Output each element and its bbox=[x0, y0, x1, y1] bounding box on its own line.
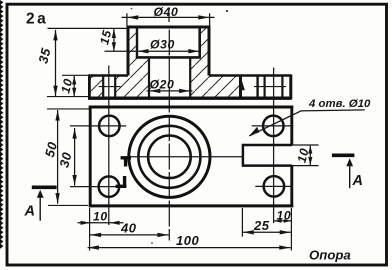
plan view outline top bbox=[89, 106, 293, 109]
speck dots (scan artifacts) bbox=[226, 10, 228, 12]
extension line base top to left bbox=[62, 74, 89, 76]
section arrow A left bar bbox=[32, 185, 57, 189]
extension line boss top to left bbox=[48, 27, 127, 29]
small hole left wall (section) bbox=[102, 76, 104, 98]
dimension 25 left arrowhead bbox=[243, 230, 254, 234]
centerline top-left hole horizontal bbox=[70, 125, 126, 127]
big circle Ø20 (plan) bbox=[148, 136, 191, 179]
centerline bottom-right hole horizontal bbox=[255, 185, 293, 187]
base bottom edge bbox=[88, 96, 292, 99]
plan view outline right upper bbox=[290, 106, 293, 145]
leader 4 holes line bbox=[249, 110, 365, 136]
dimension 30 top arrowhead bbox=[72, 128, 76, 139]
dimension Ø40 right arrowhead bbox=[198, 15, 209, 19]
dimension 50 line bbox=[57, 110, 59, 204]
svg-text:30: 30 bbox=[56, 150, 74, 169]
dimension 100 left arrowhead bbox=[88, 245, 99, 249]
dimension 10 thickness top arrowhead bbox=[72, 76, 76, 85]
odd upward arrow at notch wall bbox=[239, 81, 245, 91]
notch top edge bbox=[243, 144, 292, 147]
dimension 10 notch line bbox=[309, 146, 311, 165]
base left edge bbox=[88, 75, 91, 100]
section arrow A left arrow bbox=[39, 196, 41, 221]
dimension 30 line bbox=[74, 128, 76, 186]
svg-text:10: 10 bbox=[295, 147, 312, 165]
section arrow A right arrow bbox=[349, 164, 351, 188]
leader 4 holes arrowhead bbox=[249, 127, 259, 136]
svg-text:10: 10 bbox=[58, 77, 75, 95]
extension right edge down bbox=[290, 208, 292, 251]
notch bottom extension line bbox=[292, 165, 319, 167]
centerline right hole axis bbox=[273, 68, 275, 224]
section step mark upper vertical bbox=[124, 157, 127, 167]
centerline big circle horizontal bbox=[128, 156, 243, 158]
big circle Ø40 boss (plan) bbox=[129, 116, 210, 197]
dimension 10 bottom-right left arrowhead bbox=[274, 219, 281, 223]
hole top-left (plan) bbox=[99, 116, 120, 136]
centerline tick across right hole (section) bbox=[254, 86, 286, 88]
centerline left hole axis bbox=[108, 66, 110, 226]
big circle Ø30 (plan) bbox=[138, 126, 200, 188]
svg-text:A: A bbox=[352, 173, 363, 189]
hole bottom-right (plan) bbox=[264, 176, 285, 197]
notch top extension line bbox=[292, 144, 319, 146]
hatch area right boss band and base (section) bbox=[190, 27, 240, 97]
dimension Ø30 line bbox=[105, 50, 202, 52]
svg-text:10: 10 bbox=[93, 209, 108, 223]
dimension 50 bottom arrowhead bbox=[55, 193, 59, 204]
hole Ø20 left wall bbox=[148, 57, 150, 97]
extension line base bottom to left bbox=[47, 96, 89, 98]
plan view outline left bbox=[89, 106, 92, 208]
base top edge left segment bbox=[88, 74, 128, 77]
dimension 15 bottom arrowhead bbox=[112, 42, 116, 51]
dimension 40 right arrowhead bbox=[157, 233, 168, 237]
centerline top-right hole horizontal bbox=[252, 125, 294, 127]
svg-text:10: 10 bbox=[277, 208, 292, 222]
dimension Ø20 right arrowhead bbox=[179, 89, 190, 93]
dimension 30 bottom arrowhead bbox=[72, 175, 76, 186]
svg-text:2a: 2a bbox=[26, 11, 48, 28]
dimension 50 top arrowhead bbox=[55, 110, 59, 121]
dimension 35 top arrowhead bbox=[53, 30, 57, 41]
small hole right wall (section) bbox=[114, 76, 116, 98]
dimension 10 bottom-right right arrowhead bbox=[284, 219, 291, 223]
dimension 40 line bbox=[90, 234, 169, 236]
inner vertical line right portion bbox=[256, 76, 258, 98]
svg-text:100: 100 bbox=[176, 233, 199, 248]
section step mark lower horizontal bbox=[116, 185, 127, 188]
section arrow A right bar bbox=[332, 153, 355, 157]
dimension Ø30 left arrowhead bbox=[138, 49, 149, 53]
extension notch edge down bbox=[241, 208, 243, 237]
dimension 35 bottom arrowhead bbox=[53, 86, 57, 97]
section step mark lower vertical bbox=[123, 176, 126, 187]
notch left wall bbox=[242, 144, 245, 167]
hatch area left boss band and base (section) bbox=[115, 27, 149, 97]
right hole right wall (section) bbox=[281, 76, 283, 98]
notch bottom edge bbox=[243, 164, 292, 167]
svg-text:Ø30: Ø30 bbox=[150, 38, 175, 52]
dimension Ø20 left arrowhead bbox=[149, 89, 160, 93]
svg-text:4 отв. Ø10: 4 отв. Ø10 bbox=[308, 98, 371, 110]
dimension 10 bottom-left line with tails bbox=[78, 222, 124, 224]
boss top edge (section) bbox=[127, 26, 211, 29]
dimension 10 thickness line bbox=[73, 76, 75, 96]
dimension Ø40 left arrowhead bbox=[127, 15, 138, 19]
dimension 10 notch bottom arrowhead bbox=[308, 157, 312, 165]
svg-text:25: 25 bbox=[253, 218, 270, 233]
dimension 100 line bbox=[88, 247, 291, 249]
section step mark upper horizontal bbox=[121, 156, 131, 159]
dimension 10 bottom-left left arrowhead bbox=[81, 221, 91, 225]
dimension 25 line bbox=[243, 231, 292, 233]
dimension 100 right arrowhead bbox=[279, 245, 290, 249]
dimension Ø40 left extension bbox=[126, 13, 128, 26]
torn page left edge bbox=[0, 0, 3, 249]
base top edge right segment bbox=[209, 74, 291, 77]
hole bottom-left (plan) bbox=[99, 176, 120, 197]
plan view outline right lower bbox=[290, 166, 293, 208]
svg-text:Опора: Опора bbox=[309, 248, 351, 263]
dimension Ø40 line bbox=[122, 16, 215, 18]
dimension Ø30 right arrowhead bbox=[188, 49, 199, 53]
base right edge bbox=[289, 75, 292, 100]
recess Ø30 bottom ledge bbox=[136, 56, 201, 59]
dimension 10 notch top arrowhead bbox=[308, 146, 312, 154]
svg-text:40: 40 bbox=[120, 220, 137, 235]
svg-text:Ø20: Ø20 bbox=[150, 78, 175, 92]
dimension 15 line bbox=[113, 29, 115, 52]
recess Ø30 left wall bbox=[136, 27, 138, 57]
dimension 10 bottom-right line bbox=[274, 220, 291, 222]
dimension 10 bottom-left right arrowhead bbox=[110, 221, 120, 225]
hatch area left of small hole (section) bbox=[90, 76, 103, 98]
centerline tick across left small hole (section) bbox=[99, 86, 121, 88]
svg-text:A: A bbox=[24, 204, 35, 220]
dimension 15 top arrowhead bbox=[112, 29, 116, 38]
centerline bottom-left hole horizontal bbox=[70, 186, 116, 188]
hole Ø20 right wall bbox=[189, 57, 191, 97]
dimension Ø20 line bbox=[147, 90, 193, 92]
boss left edge (section) bbox=[127, 26, 130, 76]
hole top-right (plan) bbox=[263, 116, 284, 136]
extension left edge down bbox=[89, 208, 91, 251]
recess Ø30 right wall bbox=[198, 27, 201, 57]
dimension 50 top extension bbox=[47, 108, 89, 110]
dimension 10 thickness bottom arrowhead bbox=[72, 88, 76, 97]
svg-text:Ø40: Ø40 bbox=[154, 5, 179, 19]
svg-text:15: 15 bbox=[97, 28, 114, 46]
dimension 25 right arrowhead bbox=[280, 230, 291, 234]
dimension Ø40 right extension bbox=[209, 13, 211, 26]
dimension 35 line bbox=[55, 30, 57, 96]
centerline main axis bbox=[168, 30, 170, 241]
right hole left wall (section) bbox=[264, 76, 266, 98]
centerline main axis dash above boss bbox=[168, 13, 170, 22]
notch left wall (section) bbox=[239, 76, 242, 98]
dimension 40 left arrowhead bbox=[90, 233, 101, 237]
svg-text:35: 35 bbox=[35, 46, 53, 65]
boss right edge (section) bbox=[208, 26, 211, 76]
plan view outline bottom bbox=[89, 204, 293, 207]
dimension 50 bottom extension bbox=[48, 204, 88, 206]
